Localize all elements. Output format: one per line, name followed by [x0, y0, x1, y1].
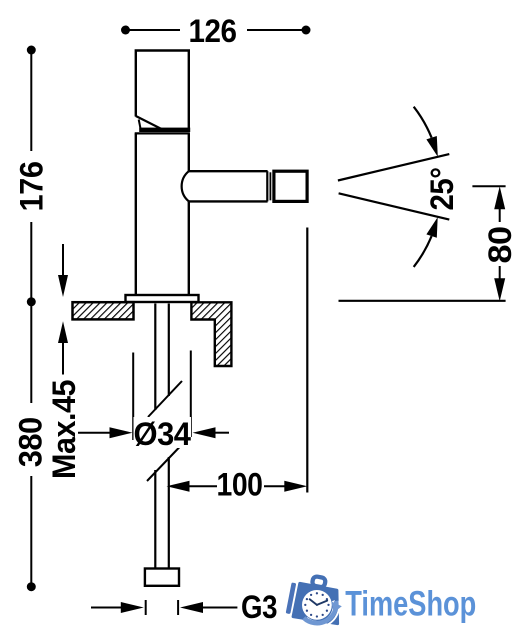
aerator neck [269, 172, 271, 200]
svg-text:100: 100 [217, 467, 263, 503]
countertop right slab L-shape (hatched) [191, 302, 231, 366]
25 degree arc arrow bottom [414, 217, 438, 267]
logo bag left separation [292, 583, 299, 618]
logo clock face [302, 590, 332, 620]
svg-text:G3: G3 [241, 589, 277, 625]
logo bag side strip [286, 582, 297, 614]
bottom connector box [145, 569, 179, 586]
dimension text Ø34 [134, 416, 192, 452]
Max.45 dimension arrows [58, 244, 68, 375]
logo clock hands [310, 599, 328, 605]
svg-text:80: 80 [482, 227, 518, 264]
svg-text:Ø34: Ø34 [134, 416, 192, 452]
dimension Ø34 extension lines [133, 351, 191, 441]
logo bag handle [312, 576, 326, 588]
spout [182, 171, 268, 201]
dimension 100 [167, 467, 308, 503]
countertop level extension line right [339, 300, 506, 302]
svg-text:176: 176 [13, 162, 49, 212]
TimeShop logo [286, 572, 477, 627]
dimension G3 bottom [91, 589, 277, 625]
dimension 126 top [121, 13, 311, 49]
svg-text:Max.45: Max.45 [46, 380, 82, 479]
supply pipe upper segment [155, 304, 169, 411]
aerator [274, 171, 307, 201]
faucet body [135, 133, 190, 295]
logo swoosh arrow [303, 601, 340, 627]
left dimension line with dots [27, 46, 36, 592]
logo bag body [293, 583, 338, 623]
dimension 80 [472, 186, 505, 301]
countertop left slab (hatched) [73, 302, 134, 319]
supply pipe lower segment [155, 457, 169, 569]
svg-text:126: 126 [189, 13, 237, 49]
svg-text:25°: 25° [424, 168, 460, 211]
dimension Ø34 arrows [78, 427, 229, 438]
25 degree angle lines [338, 154, 449, 220]
base flange [126, 295, 199, 302]
extension line from aerator down [306, 228, 308, 493]
25 degree arc arrow top [414, 107, 438, 157]
faucet handle [136, 51, 189, 130]
svg-text:TimeShop: TimeShop [345, 585, 476, 624]
handle base thick bar [139, 128, 190, 132]
pipe break slash upper [148, 381, 182, 417]
logo clock ticks [304, 592, 330, 618]
pipe break slash lower [147, 446, 181, 482]
svg-text:380: 380 [12, 417, 48, 467]
